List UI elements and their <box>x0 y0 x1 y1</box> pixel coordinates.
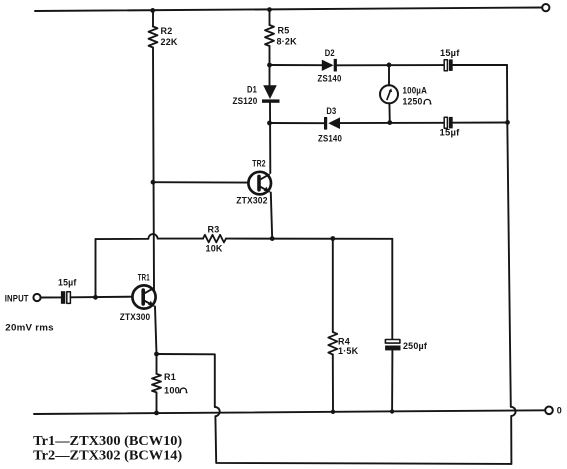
wire D3 row right to capacitor <box>340 122 444 124</box>
node junction D2 row / meter <box>387 63 392 68</box>
svg-text:ZS140: ZS140 <box>318 133 342 143</box>
svg-text:D3: D3 <box>326 106 336 116</box>
wire R2 bottom to TR1 collector <box>153 48 154 291</box>
svg-text:TR1: TR1 <box>138 272 150 282</box>
resistor R5 <box>265 25 274 46</box>
node junction R3 row / TR2 emitter <box>270 236 275 241</box>
wire 250uf bottom lead <box>391 350 393 411</box>
svg-text:15µf: 15µf <box>440 48 460 58</box>
wire D1 cathode to TR2 collector <box>269 103 271 173</box>
svg-text:R2: R2 <box>161 26 173 36</box>
transistor TR1 <box>132 285 155 308</box>
wire R3 row left segment with hop over R2 line <box>96 234 204 239</box>
wire R1 bottom lead <box>156 392 158 413</box>
wire input terminal to C1 <box>41 296 61 298</box>
node junction 250uf / 0V rail <box>390 409 394 413</box>
wire C2 right to right vertical <box>453 64 507 66</box>
svg-text:R1: R1 <box>164 372 176 382</box>
wire R4 branch top <box>332 239 334 333</box>
node junction input wire / vertical branch <box>93 295 98 300</box>
label R1 ohm symbol <box>179 388 187 393</box>
svg-text:TR2: TR2 <box>252 159 265 169</box>
wire input branch vertical to R3 row <box>95 239 97 297</box>
capacitor C2 15uf top (plates) <box>444 59 452 71</box>
svg-text:ZTX302: ZTX302 <box>236 196 268 206</box>
svg-text:15µf: 15µf <box>58 277 77 287</box>
svg-text:D2: D2 <box>325 48 335 58</box>
node top-right supply terminal <box>542 4 549 11</box>
diode D1 <box>262 85 280 103</box>
resistor R1 <box>152 374 161 393</box>
wire right feedback vertical hop over 0V rail <box>511 407 516 464</box>
capacitor C1 15uf input (plates) <box>61 291 71 304</box>
wire R1 top lead <box>156 354 158 374</box>
wire feedback from emitter junction, hop over 0V rail, to bottom run <box>157 354 512 464</box>
wire R5 to D2 node <box>269 46 271 85</box>
svg-text:1·5K: 1·5K <box>338 346 359 356</box>
svg-text:R4: R4 <box>338 336 350 346</box>
wire C3 right to right vertical <box>453 122 508 124</box>
label meter ohm symbol <box>423 99 431 104</box>
svg-text:R3: R3 <box>208 225 220 235</box>
wire meter top lead <box>388 65 390 86</box>
wire 250uf branch top <box>391 239 393 339</box>
svg-text:20mV rms: 20mV rms <box>5 322 53 332</box>
resistor R4 <box>328 332 337 355</box>
node junction R4 / 0V rail <box>331 410 335 414</box>
svg-text:10K: 10K <box>206 244 223 254</box>
svg-text:R5: R5 <box>278 26 290 36</box>
svg-text:D1: D1 <box>247 85 257 95</box>
node junction top rail / R5 <box>267 7 272 12</box>
resistor R3 <box>203 235 226 243</box>
meter M1 100uA moving-coil <box>380 85 398 103</box>
svg-text:ZTX300: ZTX300 <box>120 312 151 322</box>
wire R3 row right segment <box>226 238 392 240</box>
wire D2 row left <box>270 64 322 66</box>
svg-text:0: 0 <box>557 405 562 415</box>
wire meter bottom lead <box>388 103 390 122</box>
svg-text:15µf: 15µf <box>440 128 461 138</box>
svg-text:8·2K: 8·2K <box>277 37 298 47</box>
capacitor C4 250uf (plates) <box>385 340 400 351</box>
node junction top rail / R2 <box>150 8 155 13</box>
svg-text:ZS120: ZS120 <box>233 96 258 106</box>
node junction D3 row / meter <box>387 120 392 125</box>
diode D3 <box>324 117 340 130</box>
transistor TR2 <box>248 172 271 195</box>
wire R2 branch upper <box>152 10 154 26</box>
svg-text:22K: 22K <box>161 37 178 47</box>
svg-text:Tr2—ZTX302 (BCW14): Tr2—ZTX302 (BCW14) <box>33 447 182 462</box>
svg-text:ZS140: ZS140 <box>318 74 342 84</box>
svg-text:250µf: 250µf <box>403 341 428 351</box>
node 0V output terminal <box>545 407 553 415</box>
wire TR1 emitter down <box>155 307 157 355</box>
node INPUT terminal <box>33 294 40 301</box>
node junction R2 line / TR2 base <box>151 180 156 185</box>
wire R5 branch upper <box>269 10 271 25</box>
wire 0V bottom rail <box>34 410 545 414</box>
wire R4 bottom lead <box>332 355 334 412</box>
capacitor C3 15uf bottom (plates) <box>444 117 452 128</box>
node junction right vertical / D3 row <box>505 120 510 125</box>
svg-text:100: 100 <box>164 385 180 395</box>
wire top supply rail <box>35 8 542 12</box>
diode D2 <box>322 59 337 72</box>
node junction R5-D1 line / D3 row <box>267 121 272 126</box>
node junction R5 / D2 row <box>267 63 272 68</box>
resistor R2 <box>149 27 158 48</box>
node junction R1 / 0V rail <box>154 411 159 416</box>
node junction R3 row / R4 <box>330 236 335 241</box>
svg-text:1250: 1250 <box>403 97 423 107</box>
node junction TR1 emitter / R1 / feedback <box>154 352 159 357</box>
wire TR2 base from R2 line <box>153 181 249 183</box>
wire right feedback vertical upper <box>507 65 511 407</box>
wire D2 row right to capacitor <box>337 64 444 66</box>
svg-text:Tr1—ZTX300 (BCW10): Tr1—ZTX300 (BCW10) <box>33 433 182 448</box>
svg-text:100µA: 100µA <box>403 86 428 96</box>
svg-text:INPUT: INPUT <box>5 293 29 303</box>
wire TR2 emitter down to R3 row <box>271 193 272 239</box>
wire D3 row left <box>270 122 325 124</box>
wire C1 to TR1 base <box>71 296 133 299</box>
